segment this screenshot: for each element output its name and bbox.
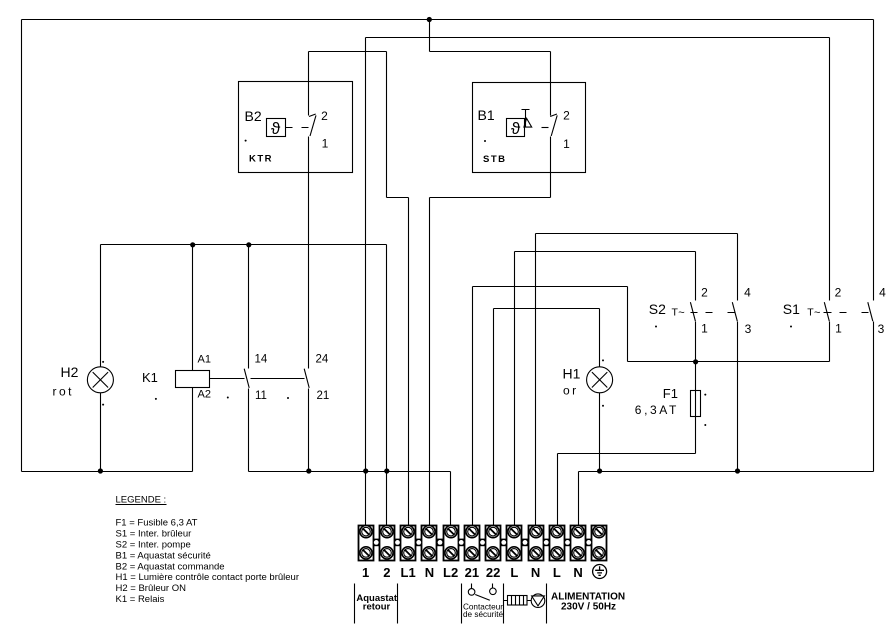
terminal block 2 (380, 526, 395, 561)
wire S1 pole2 bottom (873, 322, 875, 472)
terminal block N (422, 526, 437, 561)
svg-text:N: N (531, 565, 540, 580)
svg-text:22: 22 (486, 565, 500, 580)
wire terminal L riser (514, 252, 516, 528)
svg-text:L1: L1 (401, 565, 416, 580)
svg-text:B2: B2 (245, 108, 262, 124)
wire terminal L2 drop (450, 472, 452, 528)
svg-text:or: or (563, 384, 579, 398)
svg-text:ϑ: ϑ (511, 119, 521, 138)
svg-text:~: ~ (814, 307, 820, 319)
svg-text:21: 21 (317, 390, 330, 402)
wire terminal L3 drop (557, 454, 559, 528)
pin 1 of S1 (835, 321, 842, 335)
switch S2 linkage dashes (691, 312, 735, 314)
svg-text:S1 = Inter. brûleur: S1 = Inter. brûleur (116, 529, 192, 540)
wire K1 coil A2 drop (192, 388, 194, 472)
svg-text:2: 2 (321, 109, 328, 123)
pin A2 (198, 389, 211, 401)
switch S1 pole 1 blade (824, 302, 829, 321)
wire upper bus to S1 (366, 37, 830, 39)
svg-text:H1 = Lumière contrôle contact: H1 = Lumière contrôle contact porte brûl… (116, 572, 300, 583)
pin A1 (198, 354, 211, 366)
wire H1 bottom (599, 393, 601, 472)
svg-text:H1: H1 (563, 366, 581, 382)
wire terminal 1 riser full (365, 38, 367, 528)
label B2 (245, 108, 262, 124)
wire top node to STB (430, 51, 551, 53)
wire 22 to H1 (494, 308, 600, 310)
wire S2 pole2 bottom (737, 322, 739, 472)
pin 14 (255, 354, 268, 366)
svg-text:1: 1 (835, 321, 842, 335)
thermostat sensor B1 (507, 119, 549, 139)
pin 1 of S2 (701, 321, 708, 335)
terminal block L1 (401, 526, 416, 561)
pin 1 of B2 (322, 137, 329, 151)
svg-text:S2 = Inter. pompe: S2 = Inter. pompe (116, 540, 191, 551)
relay coil K1 (176, 371, 210, 388)
bracket Contacteur (462, 584, 504, 624)
wire H2 lamp bottom (100, 393, 102, 472)
wire KTR jog at 197 (387, 197, 409, 199)
label S2 (649, 301, 666, 317)
label H2 (61, 364, 79, 380)
label S1 (783, 301, 800, 317)
pin 21 (317, 390, 330, 402)
svg-text:A2: A2 (198, 389, 211, 401)
svg-text:2: 2 (835, 286, 842, 300)
switch S2 thermal symbol (672, 306, 685, 319)
label rot (53, 385, 75, 399)
svg-text:2: 2 (383, 565, 390, 580)
terminal block N neutral (529, 526, 544, 561)
pin 3 of S1 (878, 322, 885, 336)
svg-text:21: 21 (465, 565, 479, 580)
svg-text:14: 14 (255, 354, 268, 366)
label F1 (663, 386, 678, 401)
wire KTR t2 riser (308, 52, 310, 116)
lamp H2 (87, 367, 113, 393)
svg-text:S1: S1 (783, 301, 800, 317)
terminal block L mains (550, 526, 565, 561)
wire KTR t1 to contact 24 (308, 137, 310, 369)
svg-text:K1 = Relais: K1 = Relais (116, 594, 165, 605)
wire node bus at 361 (628, 361, 830, 363)
terminal block 1 (359, 526, 374, 561)
wire STB t1 drop (550, 137, 552, 198)
terminal block N mains (571, 526, 586, 561)
svg-text:3: 3 (878, 322, 885, 336)
wire KTR t2 jog top (309, 51, 387, 53)
wire top supply bus (22, 19, 874, 21)
svg-text:L: L (510, 565, 518, 580)
pump symbol (531, 594, 545, 608)
pin 24 (316, 354, 329, 366)
wire bottom-left bus to K1 A2 and H2 (22, 471, 193, 473)
wire S2 pole1 top (695, 252, 697, 301)
svg-text:230V / 50Hz: 230V / 50Hz (561, 602, 616, 613)
wire terminal L1 drop (408, 198, 410, 528)
wire H2 lamp top riser (100, 245, 102, 367)
wire N1 to S2 pole2 (536, 233, 738, 235)
wire terminal 2 riser (386, 245, 388, 528)
terminal strip links (373, 539, 592, 547)
switch S1 thermal symbol (807, 306, 820, 319)
wire H1 top (599, 309, 601, 367)
label or (563, 384, 579, 398)
wire STB t2 drop (550, 52, 552, 116)
label K1 (142, 370, 158, 385)
mechanical link K1 to contacts (210, 378, 305, 380)
svg-text:N: N (425, 565, 434, 580)
svg-text:1: 1 (322, 137, 329, 151)
wire coil bus A (101, 244, 387, 246)
enclosure box KTR (239, 82, 353, 173)
wire terminal 22 riser (493, 309, 495, 528)
svg-text:de sécurité: de sécurité (463, 610, 503, 619)
wire terminal 21 riser (472, 287, 474, 528)
pin 4 of S2 (744, 286, 751, 300)
svg-text:2: 2 (563, 109, 570, 123)
svg-text:retour: retour (363, 601, 391, 612)
pin 2 of S2 (701, 286, 708, 300)
svg-text:H2: H2 (61, 364, 79, 380)
svg-text:A1: A1 (198, 354, 211, 366)
svg-text:N: N (573, 565, 582, 580)
svg-text:S2: S2 (649, 301, 666, 317)
svg-text:24: 24 (316, 354, 329, 366)
svg-text:H2 = Brûleur ON: H2 = Brûleur ON (116, 583, 187, 594)
svg-text:B1 = Aquastat sécurité: B1 = Aquastat sécurité (116, 550, 211, 561)
wire L to S2 pole1 (515, 251, 696, 253)
label B1 (478, 107, 495, 123)
manual reset symbol B1 (522, 110, 532, 128)
svg-text:2: 2 (701, 286, 708, 300)
wire terminal N2 drop (578, 472, 580, 528)
switch contact B1 in STB (550, 114, 557, 136)
svg-text:6,3AT: 6,3AT (635, 403, 679, 417)
wire K1 coil A1 drop (192, 245, 194, 371)
wire STB out jog (430, 197, 551, 199)
earth symbol PE (593, 565, 607, 579)
label KTR (249, 154, 273, 165)
label Aquastat retour (356, 593, 397, 612)
legend lines (116, 517, 300, 605)
label H1 (563, 366, 581, 382)
label 6,3AT (635, 403, 679, 417)
terminal block L phase (507, 526, 522, 561)
node junction dots (98, 17, 740, 474)
svg-text:L2: L2 (443, 565, 458, 580)
wire terminal N drop (429, 198, 431, 528)
svg-text:LEGENDE :: LEGENDE : (116, 495, 167, 506)
svg-text:STB: STB (483, 154, 507, 165)
wire S2 pole1 bottom through F1 (695, 322, 697, 454)
switch S2 pole 2 blade (732, 302, 737, 321)
tiny reference dots (102, 140, 792, 426)
contact blade 14-11 (244, 369, 249, 388)
switch contact B2 in KTR (309, 114, 316, 136)
pin 2 of B1 (563, 109, 570, 123)
svg-text:F1: F1 (663, 386, 678, 401)
pin 11 (255, 390, 267, 402)
switch S1 linkage dashes (824, 312, 869, 314)
svg-text:B2 = Aquastat commande: B2 = Aquastat commande (116, 561, 225, 572)
fuse F1 (691, 391, 701, 417)
wire right border S1 pole2 top (873, 20, 875, 301)
svg-text:L: L (553, 565, 561, 580)
label Contacteur de securite (463, 602, 503, 619)
radiator symbol (504, 596, 532, 606)
wire S2 pole2 top (737, 234, 739, 301)
wire 21 bus drop (627, 287, 629, 362)
safety contact symbol (468, 584, 496, 601)
svg-text:4: 4 (879, 286, 886, 300)
svg-text:11: 11 (255, 390, 267, 402)
terminal block 21 (465, 526, 480, 561)
bracket Aquastat retour (355, 584, 398, 624)
wire contact 11 drop (248, 389, 250, 472)
wire S1 pole1 bottom (829, 322, 831, 362)
svg-text:ϑ: ϑ (271, 119, 281, 138)
terminal labels (362, 565, 583, 580)
wire top node riser (429, 20, 431, 52)
pin 3 of S2 (745, 322, 752, 336)
wire terminal N1 riser (535, 234, 537, 528)
svg-text:3: 3 (745, 322, 752, 336)
svg-text:~: ~ (678, 307, 684, 319)
pin 2 of S1 (835, 286, 842, 300)
svg-text:B1: B1 (478, 107, 495, 123)
wire KTR t2 mid drop (386, 52, 388, 198)
svg-text:1: 1 (362, 565, 369, 580)
svg-text:1: 1 (701, 321, 708, 335)
svg-text:4: 4 (744, 286, 751, 300)
wire left border drop (21, 20, 23, 472)
wire bottom bus right (579, 471, 874, 473)
lamp H1 (587, 367, 613, 393)
wire bottom bus middle (249, 471, 451, 473)
contact blade 24-21 (304, 369, 309, 388)
svg-text:F1 = Fusible 6,3 AT: F1 = Fusible 6,3 AT (116, 517, 198, 528)
pin 1 of B1 (563, 137, 570, 151)
svg-text:K1: K1 (142, 370, 158, 385)
enclosure box STB (473, 83, 586, 173)
wire 21 bus horizontal (473, 286, 628, 288)
terminal block 22 (486, 526, 501, 561)
pin 2 of B2 (321, 109, 328, 123)
wire S1 pole1 top drop (829, 38, 831, 301)
wire contact 21 drop (308, 389, 310, 472)
terminal block PE (592, 526, 607, 561)
svg-text:1: 1 (563, 137, 570, 151)
legend title (116, 495, 167, 506)
terminal block L2 (444, 526, 459, 561)
pin 4 of S1 (879, 286, 886, 300)
wire F1 out left (558, 453, 696, 455)
label STB (483, 154, 507, 165)
svg-text:rot: rot (53, 385, 75, 399)
label ALIMENTATION (551, 592, 625, 613)
switch S1 pole 2 blade (868, 302, 873, 321)
bracket alimentation (546, 584, 548, 624)
switch S2 pole 1 blade (690, 302, 695, 321)
thermostat sensor B2 (267, 119, 309, 139)
wire contact 14 riser (248, 245, 250, 369)
svg-text:KTR: KTR (249, 154, 273, 165)
